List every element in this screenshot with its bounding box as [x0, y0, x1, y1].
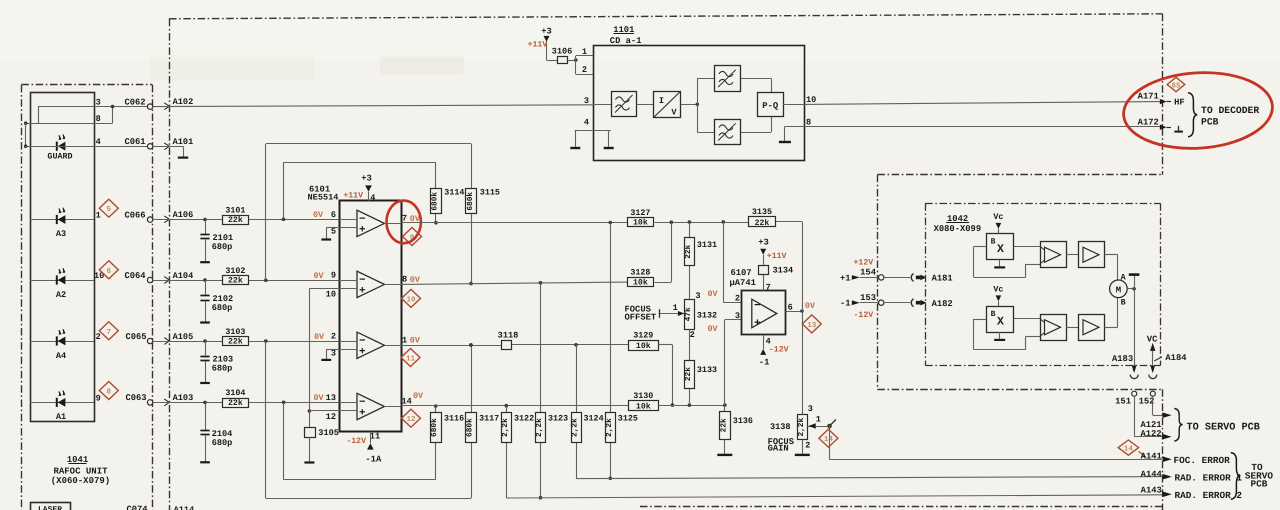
resistor 3105: [304, 411, 339, 463]
block 1101 box: [594, 46, 805, 161]
wire guard diode to pin4: [26, 146, 148, 148]
svg-text:-1: -1: [759, 358, 770, 368]
svg-text:A106: A106: [173, 210, 194, 220]
resistor 3114: [431, 188, 465, 214]
svg-text:3116: 3116: [444, 414, 464, 424]
svg-text:A183: A183: [1112, 354, 1133, 364]
svg-text:22k: 22k: [684, 244, 693, 258]
svg-text:6: 6: [788, 302, 793, 312]
svg-text:9: 9: [96, 393, 101, 403]
svg-text:2,2k: 2,2k: [501, 418, 510, 437]
svg-text:9: 9: [331, 271, 336, 281]
supply +3 arrow 741: [758, 237, 786, 265]
svg-text:-12V: -12V: [769, 346, 789, 355]
ground B-X bottom: [994, 332, 1005, 340]
svg-text:Vc: Vc: [993, 285, 1003, 295]
connector A182: [911, 299, 952, 309]
label RAD ERROR 2: [1175, 490, 1243, 501]
svg-text:A102: A102: [173, 97, 194, 107]
resistor 3117: [465, 413, 499, 443]
svg-text:3124: 3124: [584, 414, 604, 424]
connector A121: [1140, 412, 1171, 429]
wire 3130 to node: [658, 403, 726, 407]
svg-text:C062: C062: [124, 97, 145, 107]
wire 154 to A181: [884, 277, 910, 279]
svg-text:3102: 3102: [225, 266, 245, 276]
svg-text:6: 6: [107, 267, 112, 276]
multiplier B-X bottom: [987, 307, 1014, 333]
pin 1 label: [402, 336, 421, 346]
ground A101: [178, 146, 188, 157]
svg-text:B: B: [991, 310, 996, 319]
svg-text:3101: 3101: [225, 205, 245, 215]
waveform ref 65: [1167, 77, 1185, 91]
multiplier B-X top: [987, 234, 1014, 260]
guard photodiode: [47, 134, 72, 161]
svg-text:2,2k: 2,2k: [535, 418, 544, 437]
svg-text:OFFSET: OFFSET: [625, 313, 657, 323]
svg-text:2: 2: [690, 330, 695, 340]
label +12V: [854, 259, 874, 268]
RAFOC unit title: [51, 455, 110, 486]
svg-text:3114: 3114: [444, 188, 464, 198]
capacitor 2103: [200, 341, 233, 383]
svg-text:C061: C061: [124, 137, 145, 147]
I-V converter: [654, 91, 681, 118]
svg-text:-1A: -1A: [365, 454, 382, 464]
svg-text:680k: 680k: [430, 418, 439, 437]
resistor 3128: [628, 268, 654, 288]
svg-text:14: 14: [824, 436, 834, 444]
svg-text:A172: A172: [1138, 117, 1159, 127]
svg-text:3125: 3125: [618, 414, 638, 424]
svg-text:B: B: [991, 238, 996, 247]
resistor 3129: [629, 330, 659, 351]
resistor 3106: [552, 46, 573, 63]
resistor 3133: [684, 361, 717, 389]
pin 12 wire: [309, 411, 339, 422]
connector C064: [124, 271, 152, 283]
svg-text:A122: A122: [1140, 429, 1161, 439]
amplifier A1 top: [1040, 242, 1067, 268]
wire 3129 corner down: [658, 345, 674, 407]
svg-text:22k: 22k: [755, 219, 770, 228]
wire A172 line: [804, 126, 1160, 128]
pin 3 label 1101: [584, 96, 589, 106]
waveform ref 5: [99, 199, 118, 217]
wire 741 pin3: [725, 320, 742, 406]
waveform ref 10: [402, 289, 421, 307]
svg-text:3127: 3127: [630, 208, 650, 218]
svg-text:13: 13: [326, 393, 336, 403]
pin 3 ground: [321, 348, 339, 360]
svg-text:+3: +3: [541, 27, 552, 37]
wire B-X top out: [1013, 246, 1040, 248]
svg-text:2: 2: [331, 332, 336, 342]
svg-text:3: 3: [735, 311, 740, 321]
signal +1 arrow: [840, 273, 879, 283]
svg-text:0V: 0V: [313, 210, 324, 220]
svg-text:A104: A104: [173, 271, 194, 281]
resistor 3102: [223, 266, 249, 286]
svg-text:GAIN: GAIN: [768, 443, 789, 453]
svg-text:680p: 680p: [212, 303, 233, 313]
svg-text:3128: 3128: [630, 268, 650, 278]
waveform ref 8: [99, 382, 118, 400]
svg-text:2,2k: 2,2k: [797, 418, 806, 437]
connector C061: [124, 137, 152, 149]
svg-text:A143: A143: [1141, 486, 1162, 496]
waveform ref 11: [401, 349, 420, 367]
laser unit box: [31, 503, 71, 510]
svg-text:3136: 3136: [733, 416, 753, 426]
svg-text:8: 8: [806, 117, 811, 127]
wire A106: [153, 210, 339, 223]
svg-text:0V: 0V: [410, 336, 421, 346]
svg-text:3129: 3129: [633, 330, 653, 340]
svg-text:3134: 3134: [773, 265, 794, 275]
pin 2 label 1101: [582, 65, 587, 75]
wire 152 to A121: [1153, 396, 1163, 415]
svg-text:P-Q: P-Q: [762, 101, 779, 111]
resistor 3103: [223, 327, 249, 347]
svg-text:3: 3: [695, 291, 700, 301]
VC signal arrow: [1147, 334, 1158, 365]
svg-text:22k: 22k: [228, 399, 243, 408]
wire op4 output: [401, 404, 629, 408]
svg-text:V: V: [671, 108, 677, 118]
wire 3115 feedback top: [266, 144, 472, 281]
connector A183: [1112, 354, 1138, 379]
svg-text:A141: A141: [1141, 452, 1162, 462]
supply +3 arrow 1101: [541, 27, 558, 61]
svg-text:TO SERVO PCB: TO SERVO PCB: [1187, 422, 1260, 433]
svg-text:3117: 3117: [479, 414, 499, 424]
svg-text:680p: 680p: [212, 363, 233, 373]
connector C065: [125, 332, 152, 344]
potentiometer 3132: [660, 291, 718, 340]
svg-text:3103: 3103: [225, 327, 245, 337]
svg-text:1: 1: [402, 336, 407, 346]
motor M: [1110, 273, 1128, 308]
svg-text:-12V: -12V: [854, 311, 874, 320]
svg-text:6: 6: [331, 210, 336, 220]
wire B-X top loop: [974, 247, 1041, 278]
svg-text:CD a-1: CD a-1: [610, 36, 642, 46]
waveform ref 14 source: [819, 429, 838, 447]
resistor 3125 net: [609, 223, 613, 481]
svg-text:2: 2: [96, 332, 101, 342]
photodiode A4: [30, 329, 94, 361]
op-amp IC 6101 box: [340, 201, 402, 432]
resistor 3104: [223, 388, 249, 408]
svg-text:14: 14: [402, 396, 412, 406]
wire F1 to IV: [637, 104, 654, 106]
brace servo small: [1174, 409, 1182, 442]
svg-text:3: 3: [808, 404, 813, 414]
wire focus error: [830, 426, 1163, 460]
connector C063: [125, 393, 152, 405]
svg-text:151: 151: [1115, 396, 1131, 406]
pin 1 label 1101: [582, 47, 587, 57]
svg-text:HF: HF: [1174, 98, 1185, 108]
svg-text:+11V: +11V: [767, 252, 787, 261]
pin 10 wire: [308, 289, 339, 413]
svg-text:-12V: -12V: [346, 437, 366, 446]
wire B-X bottom loop: [974, 319, 1041, 350]
svg-text:PCB: PCB: [1201, 117, 1219, 128]
waveform ref 6: [99, 261, 118, 279]
label to servo pcb upper: [1187, 422, 1260, 433]
wire guard ring pin3: [38, 107, 94, 124]
resistor 3131: [684, 238, 717, 266]
resistor 3115: [466, 188, 500, 214]
wire guard to anode: [24, 123, 28, 148]
connector C074 label: [126, 505, 148, 510]
filter block F2: [715, 66, 741, 92]
connector A184: [1149, 353, 1187, 378]
svg-text:22k: 22k: [719, 418, 728, 432]
svg-text:2: 2: [735, 294, 740, 304]
svg-text:4: 4: [96, 137, 101, 147]
label -12V input: [854, 311, 874, 320]
resistor 3123 net: [539, 283, 543, 500]
motor terminal node: [1127, 287, 1136, 291]
wire A102 HF line: [153, 97, 593, 109]
svg-text:0V: 0V: [413, 391, 424, 401]
svg-text:0V: 0V: [314, 271, 325, 281]
resistor 3122 net: [506, 406, 508, 498]
svg-text:13: 13: [807, 321, 817, 330]
svg-text:+11V: +11V: [528, 40, 548, 49]
resistor 3127: [628, 208, 654, 228]
label FOC ERROR: [1174, 455, 1231, 466]
svg-text:A144: A144: [1141, 469, 1163, 479]
svg-text:680k: 680k: [466, 192, 475, 211]
svg-text:65: 65: [1171, 82, 1181, 91]
svg-text:0V: 0V: [708, 324, 719, 334]
svg-text:0V: 0V: [708, 289, 719, 299]
wire 3128 to bus: [655, 222, 672, 282]
svg-text:3133: 3133: [697, 365, 717, 375]
capacitor 2104: [200, 402, 232, 462]
RAFOC unit dash-dot border: [21, 85, 152, 510]
svg-text:680k: 680k: [465, 418, 474, 437]
svg-text:+3: +3: [758, 237, 769, 247]
pin 2 label 741: [708, 289, 741, 304]
svg-text:7: 7: [107, 329, 112, 337]
wire A104: [153, 271, 339, 284]
svg-text:3132: 3132: [697, 310, 717, 320]
photodiode A1: [30, 391, 94, 423]
svg-text:A2: A2: [56, 290, 66, 300]
wire op1 output bus: [401, 220, 802, 224]
brace servo big: [1231, 453, 1241, 500]
svg-text:X: X: [997, 243, 1004, 256]
pin 3 label 741: [708, 311, 741, 334]
op-amp U1a: [339, 210, 401, 236]
pin 8 label: [402, 275, 421, 285]
connector A181: [911, 274, 952, 284]
svg-text:2: 2: [805, 440, 810, 450]
svg-text:A4: A4: [56, 351, 66, 361]
pin 6 label: [313, 210, 336, 220]
svg-text:14: 14: [1124, 446, 1134, 454]
red ellipse annotation: [1121, 68, 1274, 152]
svg-text:C074: C074: [126, 505, 148, 510]
svg-text:C064: C064: [124, 271, 146, 281]
svg-text:10k: 10k: [636, 403, 651, 412]
svg-text:NE5514: NE5514: [308, 193, 339, 203]
svg-text:Vc: Vc: [993, 212, 1003, 222]
svg-text:I: I: [659, 96, 664, 106]
svg-text:8: 8: [96, 114, 101, 124]
svg-text:3123: 3123: [548, 414, 568, 424]
svg-text:1: 1: [673, 303, 678, 313]
connector C066: [124, 210, 152, 222]
svg-text:12: 12: [326, 412, 336, 422]
svg-text:3122: 3122: [514, 414, 534, 424]
svg-text:0V: 0V: [410, 275, 421, 285]
svg-text:3104: 3104: [225, 388, 245, 398]
svg-text:A171: A171: [1138, 92, 1159, 102]
ground symbol decoder: [1174, 126, 1183, 132]
wire RAD error 1 bus: [576, 477, 1162, 479]
waveform ref 12: [402, 409, 421, 427]
filter block F3: [715, 120, 741, 145]
svg-text:0V: 0V: [314, 393, 325, 403]
svg-text:A3: A3: [56, 229, 66, 239]
pin 14 label: [402, 391, 425, 406]
svg-text:154: 154: [860, 268, 877, 278]
svg-text:3130: 3130: [633, 391, 653, 401]
wire IV split node: [681, 79, 715, 133]
svg-text:A105: A105: [173, 332, 194, 342]
pin 1 label: [96, 211, 101, 221]
svg-text:3131: 3131: [697, 240, 717, 250]
connector A114 label: [174, 505, 195, 510]
op-amp U1c: [339, 332, 401, 358]
wire op2 output: [401, 281, 628, 285]
connector A144: [1141, 469, 1172, 479]
IC 6101 label: [308, 185, 339, 203]
connector A171: [1138, 92, 1171, 105]
op-amp 6107 uA741: [730, 268, 786, 334]
svg-text:22k: 22k: [228, 277, 243, 286]
capacitor 2102: [200, 280, 233, 323]
wire RAD error 2 bus: [506, 495, 1162, 498]
resistor 3125: [605, 413, 638, 443]
connector C062: [124, 97, 152, 109]
svg-text:A182: A182: [932, 299, 953, 309]
label RAD ERROR 1: [1175, 472, 1243, 483]
op-amp U1b: [339, 271, 401, 297]
Vc supply bottom: [993, 285, 1003, 306]
connector A141: [1141, 452, 1172, 462]
svg-text:680p: 680p: [212, 242, 233, 252]
svg-text:FOC. ERROR: FOC. ERROR: [1174, 455, 1231, 466]
svg-text:10k: 10k: [633, 219, 648, 228]
pin 2 label: [314, 332, 336, 342]
svg-text:0V: 0V: [314, 332, 325, 342]
wire 151 to A122: [1134, 396, 1162, 437]
svg-text:RAD. ERROR 1: RAD. ERROR 1: [1175, 472, 1243, 483]
svg-text:3135: 3135: [752, 207, 772, 217]
svg-text:4: 4: [370, 193, 375, 203]
wire B-X bottom out: [1013, 318, 1040, 320]
svg-text:µA741: µA741: [730, 278, 756, 288]
resistor 3122: [501, 413, 534, 443]
block 1042 dash-dot box: [925, 203, 1160, 365]
amplifier A4 bottom: [1079, 315, 1105, 341]
svg-text:2: 2: [582, 65, 587, 75]
connector A172: [1138, 117, 1171, 130]
svg-text:1: 1: [816, 415, 821, 425]
svg-text:1: 1: [96, 211, 101, 221]
svg-text:153: 153: [860, 293, 876, 303]
svg-text:3106: 3106: [552, 46, 573, 56]
svg-text:+1: +1: [840, 273, 851, 283]
resistor 3134: [759, 265, 794, 292]
svg-text:2,2k: 2,2k: [571, 418, 580, 437]
node pin3-pin8 junction: [94, 105, 114, 124]
svg-text:3138: 3138: [770, 422, 791, 432]
wire 741 pin2: [723, 222, 742, 303]
wire 3114 to output: [434, 214, 438, 225]
filter block F1: [612, 92, 637, 117]
waveform ref 14 output: [1118, 440, 1146, 457]
VC rail bar: [1129, 275, 1140, 289]
photodiode A3: [30, 208, 94, 240]
connector A101: [153, 137, 193, 150]
svg-text:A1: A1: [56, 412, 66, 422]
svg-text:22k: 22k: [684, 367, 693, 381]
svg-text:0V: 0V: [805, 301, 816, 311]
svg-text:B: B: [1121, 298, 1126, 308]
resistor 3135: [749, 207, 776, 228]
op-amp U1d: [339, 393, 401, 419]
svg-text:22k: 22k: [228, 216, 243, 225]
wire 3116 feedback: [284, 402, 438, 479]
wire 153 to A182: [884, 302, 910, 304]
wire A103: [153, 393, 339, 406]
wire P-Q out: [783, 95, 816, 105]
wire A105: [153, 332, 339, 345]
svg-text:22k: 22k: [228, 338, 243, 347]
amplifier A3 bottom: [1040, 315, 1067, 341]
svg-text:A184: A184: [1165, 353, 1187, 363]
wire pin3 to filter: [593, 104, 611, 106]
wire pin3 to C062: [94, 106, 148, 108]
svg-text:7: 7: [766, 282, 771, 292]
wire 3135 feedback: [802, 222, 804, 311]
svg-text:C066: C066: [124, 210, 145, 220]
wire guard ring pin8: [24, 121, 94, 125]
amplifier A2 top: [1079, 242, 1105, 268]
wire A171 HF line: [804, 102, 1160, 105]
svg-text:4: 4: [584, 118, 589, 128]
resistor 3123: [535, 413, 568, 443]
svg-text:TO DECODER: TO DECODER: [1201, 105, 1259, 116]
svg-text:680k: 680k: [431, 192, 440, 211]
pin 3 label: [96, 98, 101, 108]
svg-text:11: 11: [370, 431, 380, 441]
resistor 3133 net: [689, 329, 691, 405]
pin 8 label: [96, 114, 101, 124]
svg-text:10: 10: [806, 95, 816, 105]
svg-text:3115: 3115: [480, 188, 500, 198]
svg-text:A114: A114: [174, 505, 195, 510]
